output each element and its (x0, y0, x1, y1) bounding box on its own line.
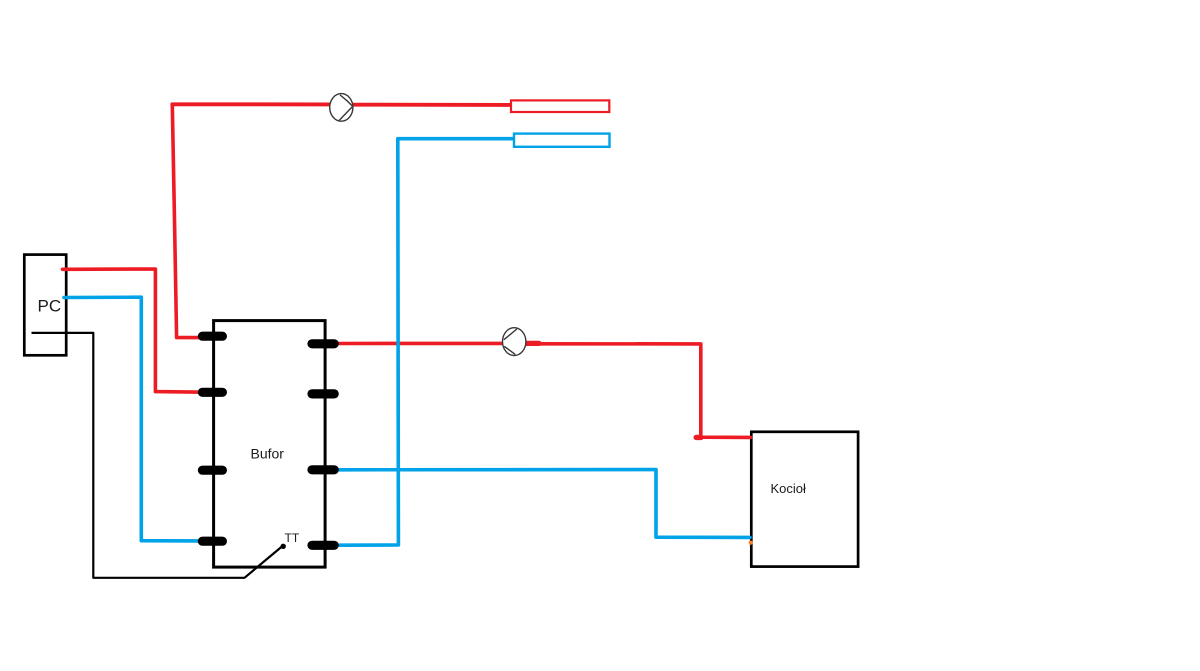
radiator (red, top) (511, 100, 609, 112)
box PC (24, 255, 66, 356)
port L3 (202, 466, 222, 475)
wire red boiler supply: Bufor port R1 to pump P2 (336, 342, 503, 346)
box Kociol (751, 432, 858, 567)
port L4 (202, 537, 222, 546)
pump P2 (503, 328, 526, 356)
radiator (blue, top) (514, 134, 610, 147)
wire blue boiler return: Bufor port R3 to Kociol (336, 470, 750, 538)
wire red supply: top horizontal right segment (pump P1 to radiator) (353, 103, 512, 107)
wire blue return: radiator to vertical drop to Bufor port R4 (340, 139, 514, 546)
wire red supply: top corner vertical from radiator line down to Bufor port L1 (172, 104, 204, 337)
port R3 (312, 465, 334, 474)
wire red supply: top horizontal left segment (corner to pump P1) (172, 102, 331, 106)
wire red from PC to Bufor port L2 (63, 269, 205, 392)
port R2 (312, 389, 334, 398)
svg-text:Kocioł: Kocioł (771, 481, 807, 496)
port R1 (312, 339, 334, 348)
svg-text:TT: TT (285, 531, 300, 545)
node orange dot at Kociol blue inlet (749, 541, 753, 545)
wire blue from PC to Bufor port L4 (64, 297, 199, 541)
wire red overdraw blob at Kociol corner (696, 435, 701, 440)
box Bufor (214, 321, 326, 567)
wire red boiler supply: pump P2 to Kociol (526, 344, 751, 438)
port L1 (202, 332, 222, 341)
port L2 (202, 388, 222, 397)
wire red overdraw blob right of pump P2 (527, 341, 540, 346)
wire black sensor from PC to TT point (32, 333, 282, 578)
port R4 (312, 541, 334, 550)
svg-text:Bufor: Bufor (251, 446, 285, 462)
svg-text:PC: PC (38, 297, 62, 316)
node TT (sensor dot) (281, 544, 286, 549)
pump P1 (330, 94, 353, 122)
